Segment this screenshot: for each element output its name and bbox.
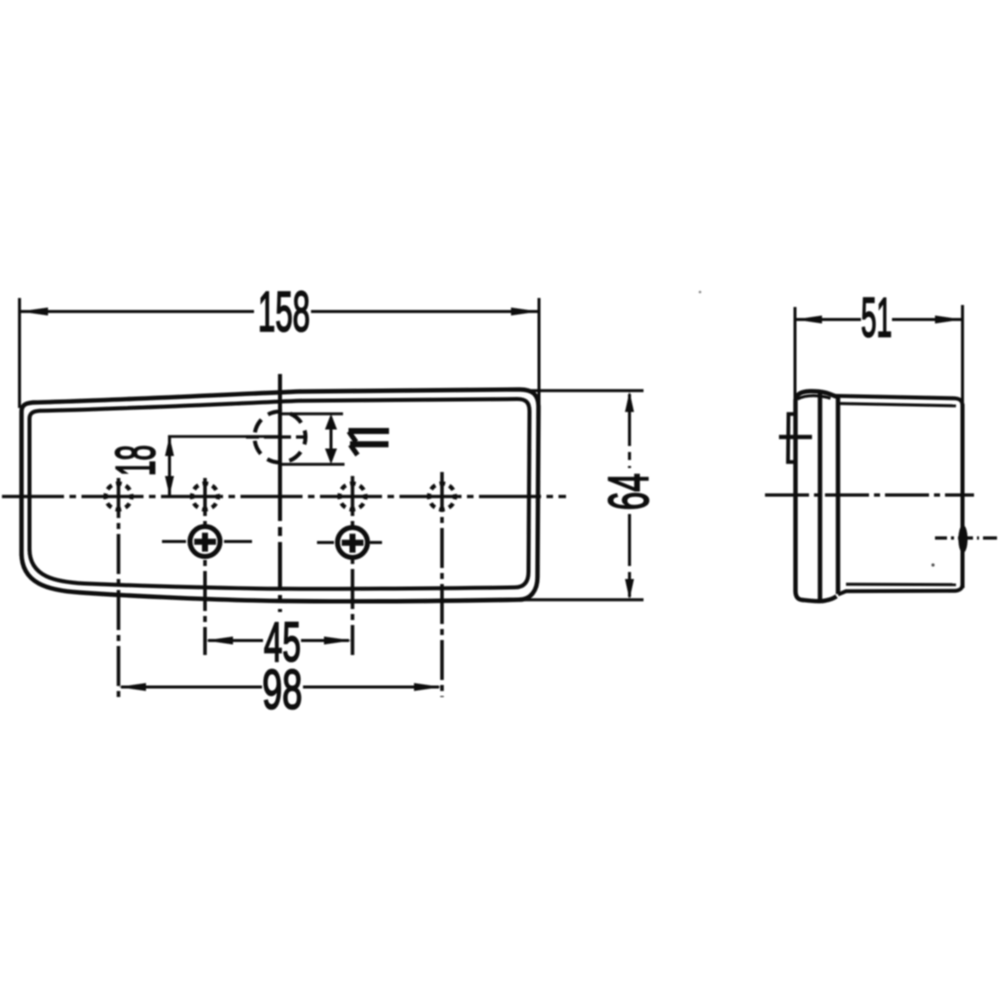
dimension 64 bottom extension line [522,598,644,601]
mounting hole 4 vertical centerline [440,472,444,697]
dimension text 11 (rotated, drawn as strokes) [349,431,390,455]
dimension 51 left extension line [794,307,797,402]
dimension 51 left arrowhead [795,316,822,324]
dimension 51 right extension line [961,305,964,406]
dimension 45 line [208,639,349,642]
scan speck 1 [931,563,934,566]
screw hole 2 left tick [317,541,334,544]
dimension 18 up arrowhead [165,437,174,457]
mounting hole 4 dashed circle [429,484,455,510]
dimension 11 down arrowhead [325,449,337,465]
lamp body outer outline (front view) [22,389,539,601]
scan speck 2 [699,291,702,294]
dimension 11 bottom line [281,463,345,466]
dimension 98 line [121,686,439,689]
side view housing bottom inner line [846,583,956,586]
side view housing top inner line [840,404,956,406]
dimension 98 left arrowhead [119,683,147,691]
side view housing top outer line [833,396,963,406]
dimension 98 right arrowhead [414,683,442,691]
dimension 18 top line [168,435,282,438]
mounting hole 1 vertical centerline [117,478,121,697]
dimension 51 line [795,318,963,321]
side view mounting tab [788,414,795,462]
side view lens joint line [818,392,822,601]
svg-text:51: 51 [861,286,892,349]
screw hole 2 circle [338,528,368,558]
dimension 11 top line [281,412,343,415]
screw hole 1 right tick [224,540,252,543]
dimension 64 top extension line [528,389,644,392]
dimension 45 right arrowhead [324,637,352,645]
mounting hole 2 vertical centerline [203,478,207,655]
dimension 158 left extension line [18,298,21,408]
dimension 45 left arrowhead [206,637,234,645]
side view tab cross line [779,435,812,439]
lamp body inner outline (front view) [30,399,530,589]
svg-text:18: 18 [104,445,167,476]
dimension 11 up arrowhead [325,414,337,430]
mounting hole 3 vertical centerline [351,476,355,655]
screw hole 1 left tick [162,540,186,543]
dimension 158 right extension line [538,298,541,420]
dimension 158 left arrowhead [20,308,49,316]
dimension 64 up arrowhead [625,392,634,413]
screw hole 2 cross [342,534,364,553]
screw hole 1 cross [194,533,216,552]
side view lens outer profile [796,391,839,601]
screw hole 2 right tick [370,541,382,544]
dimension 51 right arrowhead [935,316,963,324]
side view housing right edge [960,404,964,588]
side view lens inner top line [798,396,831,399]
dimension 18 down arrowhead [165,476,174,496]
dimension 11 arrow line [330,418,333,460]
side view screw dome bump [958,525,967,553]
side view housing bottom outer line [838,584,963,595]
dimension 158 line [20,310,540,313]
dimension 64 arrow line [628,394,631,597]
svg-text:98: 98 [262,658,302,721]
dimension 64 down arrowhead [625,579,634,599]
side view screw axis dash-dot line [935,536,997,539]
svg-text:64: 64 [597,473,661,510]
side view horizontal centerline [765,493,974,496]
screw hole 1 circle [190,527,220,557]
mounting hole 2 dashed circle [192,484,218,510]
svg-text:158: 158 [258,280,310,344]
mounting hole 1 dashed circle [106,484,132,510]
vertical centerline of front view [278,374,282,612]
horizontal centerline of front view [2,495,566,498]
mounting hole 3 dashed circle [340,484,366,510]
top circle (lamp dome, hidden outline) [255,412,306,463]
top circle horizontal centerline [246,435,314,438]
dimension 158 right arrowhead [511,308,539,316]
dimension 18 arrow line [168,437,171,495]
